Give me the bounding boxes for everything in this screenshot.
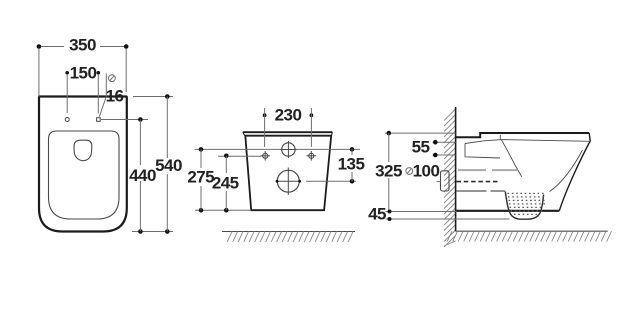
svg-text:16: 16 — [106, 87, 124, 106]
svg-text:275: 275 — [187, 168, 214, 187]
svg-text:540: 540 — [155, 156, 182, 175]
svg-text:230: 230 — [275, 105, 302, 124]
svg-text:440: 440 — [129, 166, 156, 185]
svg-text:55: 55 — [412, 138, 430, 157]
svg-text:100: 100 — [413, 162, 440, 181]
svg-text:350: 350 — [69, 36, 96, 55]
svg-text:150: 150 — [70, 64, 97, 83]
svg-text:245: 245 — [212, 173, 239, 192]
svg-text:325: 325 — [375, 162, 402, 181]
svg-text:45: 45 — [368, 205, 386, 224]
svg-text:135: 135 — [338, 155, 365, 174]
